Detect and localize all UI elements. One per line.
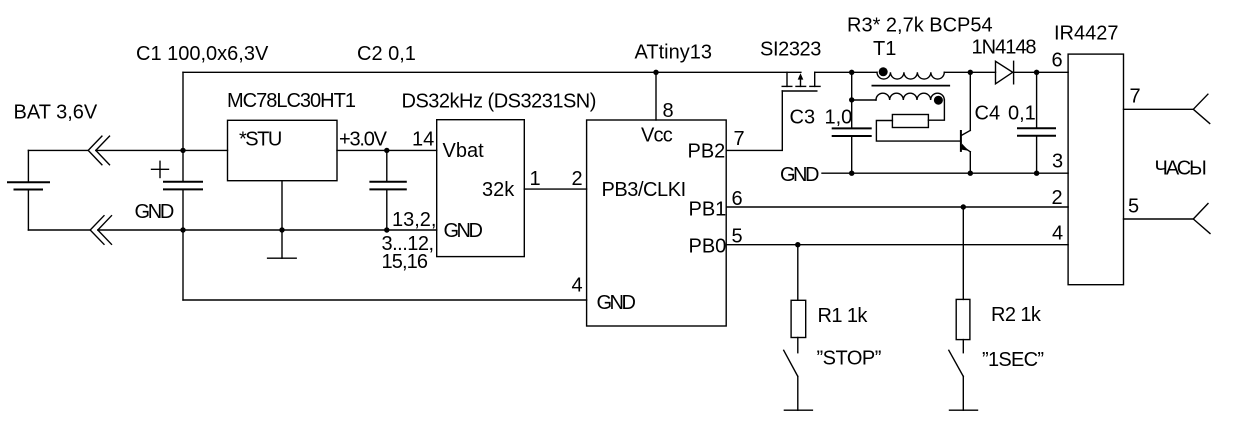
capacitor C1 xyxy=(163,182,203,190)
svg-text:R3* 2,7k BCP54: R3* 2,7k BCP54 xyxy=(847,15,993,37)
svg-text:0,1: 0,1 xyxy=(1008,103,1036,125)
svg-text:C1 100,0x6,3V: C1 100,0x6,3V xyxy=(136,43,269,65)
capacitor C2 xyxy=(369,150,406,230)
transformer T1 core xyxy=(872,85,951,87)
wire R2 to PB1 xyxy=(962,207,964,299)
wire GND rail left section xyxy=(183,229,437,231)
node junction C4 bottom / rail xyxy=(1034,171,1039,176)
IC U2 DS32kHz box xyxy=(437,120,525,257)
svg-text:MC78LC30HT1: MC78LC30HT1 xyxy=(227,90,356,112)
transistor Q1 SI2323 p-MOSFET xyxy=(782,72,820,91)
node junction Vcc / top rail xyxy=(653,70,658,75)
svg-text:13,2,: 13,2, xyxy=(392,209,436,231)
svg-text:GND: GND xyxy=(135,201,174,223)
wire regulator ground lead xyxy=(281,181,283,259)
wire connector to node A xyxy=(96,149,183,151)
connector chevron pin 5 xyxy=(1193,204,1210,234)
switch S2 lever xyxy=(949,350,964,376)
wire ATtiny Vcc pin 8 xyxy=(655,72,657,120)
node junction C1 bottom / GND rail xyxy=(180,227,185,232)
IC U3 ATtiny13 box xyxy=(587,120,727,326)
svg-text:14: 14 xyxy=(412,129,434,151)
node junction emitter / rail xyxy=(968,171,973,176)
svg-text:PB1: PB1 xyxy=(689,199,727,221)
wire to secondary winding xyxy=(852,99,876,101)
svg-text:R2 1k: R2 1k xyxy=(991,304,1042,326)
svg-text:PB2: PB2 xyxy=(688,141,726,163)
svg-text:Vcc: Vcc xyxy=(641,125,673,147)
wire R1 to PB0 xyxy=(797,245,799,301)
svg-text:4: 4 xyxy=(572,275,583,297)
ground symbol under regulator xyxy=(268,257,297,259)
wire ATtiny GND pin 4 xyxy=(183,299,587,301)
battery BAT xyxy=(7,150,50,230)
IC U4 IR4427 box xyxy=(1068,54,1123,285)
connector chevron pin 7 xyxy=(1193,94,1209,123)
svg-text:”1SEC”: ”1SEC” xyxy=(982,349,1043,371)
wire switch S2 to ground xyxy=(962,376,964,410)
wire top rail (battery + to MOSFET source) xyxy=(183,71,801,73)
svg-text:C3: C3 xyxy=(790,107,816,129)
wire connector to GND rail xyxy=(98,229,183,231)
wire regulator output +3.0V to DS32kHz pin 14 xyxy=(337,149,437,151)
transformer T1 secondary winding xyxy=(876,93,944,100)
svg-text:ATtiny13: ATtiny13 xyxy=(635,42,712,64)
wire secondary right end down to R3 xyxy=(928,100,944,120)
wire R3 left to base xyxy=(876,121,961,142)
svg-text:+3.0V: +3.0V xyxy=(339,129,388,151)
svg-text:7: 7 xyxy=(1130,86,1141,108)
ground symbol S2 xyxy=(950,409,978,411)
svg-text:IR4427: IR4427 xyxy=(1054,23,1119,45)
capacitor C4 xyxy=(1017,72,1056,173)
svg-text:32k: 32k xyxy=(482,179,515,201)
node junction C4 top / pin6 wire xyxy=(1034,70,1039,75)
wire vertical trunk x=183 (Vbat net up to top rail, down to ATtiny GND) xyxy=(182,72,184,300)
svg-text:2: 2 xyxy=(1052,187,1063,209)
node junction collector / top rail xyxy=(968,70,973,75)
svg-text:7: 7 xyxy=(734,128,745,150)
svg-text:5: 5 xyxy=(1128,196,1139,218)
resistor R1 xyxy=(791,300,806,337)
node junction C3/secondary tap on top rail xyxy=(849,70,854,75)
wire T1 primary to diode xyxy=(944,71,995,73)
svg-text:1N4148: 1N4148 xyxy=(972,37,1037,59)
polarity dot secondary xyxy=(934,96,943,105)
wire R1 bottom stub xyxy=(797,338,799,353)
svg-text:8: 8 xyxy=(663,100,674,122)
svg-text:15,16: 15,16 xyxy=(382,251,428,273)
wire DS32kHz pin1 to ATtiny pin2 xyxy=(524,188,586,190)
switch S1 lever xyxy=(784,350,798,376)
svg-text:3: 3 xyxy=(1052,151,1063,173)
node junction PB1 / R2 xyxy=(961,204,966,209)
wire PB1 to IR4427 pin 2 xyxy=(726,206,1068,208)
svg-text:PB0: PB0 xyxy=(689,235,727,257)
ground symbol S1 xyxy=(784,409,812,411)
wire MOSFET drain to T1 primary xyxy=(815,71,877,73)
wire GND rail right section xyxy=(822,172,1068,174)
connector chevrons top xyxy=(88,136,109,165)
node junction battery/C1/regulator input xyxy=(180,148,185,153)
transformer T1 primary winding xyxy=(877,72,944,79)
svg-text:GND: GND xyxy=(444,220,483,242)
svg-text:4: 4 xyxy=(1052,223,1063,245)
svg-text:”STOP”: ”STOP” xyxy=(817,348,881,370)
wire IR4427 pin 7 output xyxy=(1124,108,1194,110)
node junction regulator gnd / rail xyxy=(279,227,284,232)
capacitor C3 xyxy=(832,128,872,173)
wire battery plus to connector xyxy=(28,149,88,151)
svg-text:SI2323: SI2323 xyxy=(760,39,821,61)
svg-text:ЧАСЫ: ЧАСЫ xyxy=(1155,158,1207,180)
wire R2 bottom stub xyxy=(962,340,964,353)
svg-text:T1: T1 xyxy=(873,38,896,60)
node junction C3 bottom / rail xyxy=(849,171,854,176)
wire PB2 to MOSFET gate xyxy=(726,91,782,150)
svg-text:R1 1k: R1 1k xyxy=(818,305,869,327)
wire switch S1 to ground xyxy=(797,376,799,410)
svg-text:GND: GND xyxy=(780,164,819,186)
node junction PB0 / R1 xyxy=(795,242,800,247)
connector chevrons bottom xyxy=(90,216,111,245)
regulator U1 MC78LC30HT1 xyxy=(228,120,338,180)
node junction secondary left end xyxy=(849,97,854,102)
diode D1 1N4148 xyxy=(996,61,1014,84)
polarity dot primary xyxy=(879,67,888,76)
svg-text:6: 6 xyxy=(1052,50,1063,72)
svg-text:2: 2 xyxy=(572,168,583,190)
svg-text:BAT 3,6V: BAT 3,6V xyxy=(14,102,98,124)
wire PB0 to IR4427 pin 4 xyxy=(726,244,1068,246)
svg-text:*STU: *STU xyxy=(239,129,281,151)
svg-text:1,0: 1,0 xyxy=(825,107,853,129)
svg-text:PB3/CLKI: PB3/CLKI xyxy=(602,179,686,201)
wire IR4427 pin 5 output xyxy=(1124,218,1194,220)
node junction C2 top xyxy=(384,148,389,153)
svg-text:Vbat: Vbat xyxy=(443,140,485,162)
transistor Q2 BCP54 xyxy=(961,72,970,173)
node junction C2 bottom xyxy=(384,227,389,232)
wire regulator input xyxy=(183,149,228,151)
svg-text:C2 0,1: C2 0,1 xyxy=(357,43,416,65)
resistor R3 xyxy=(892,115,928,128)
resistor R2 xyxy=(956,299,970,339)
plus sign of C1 xyxy=(152,161,169,177)
wire C3 stem upper xyxy=(851,72,853,128)
wire battery minus to connector xyxy=(28,229,90,231)
wire diode cathode to IR4427 pin 6 xyxy=(1014,71,1069,73)
svg-text:GND: GND xyxy=(597,292,636,314)
svg-text:C4: C4 xyxy=(975,103,1001,125)
svg-text:DS32kHz (DS3231SN): DS32kHz (DS3231SN) xyxy=(402,91,596,113)
svg-text:1: 1 xyxy=(530,168,541,190)
